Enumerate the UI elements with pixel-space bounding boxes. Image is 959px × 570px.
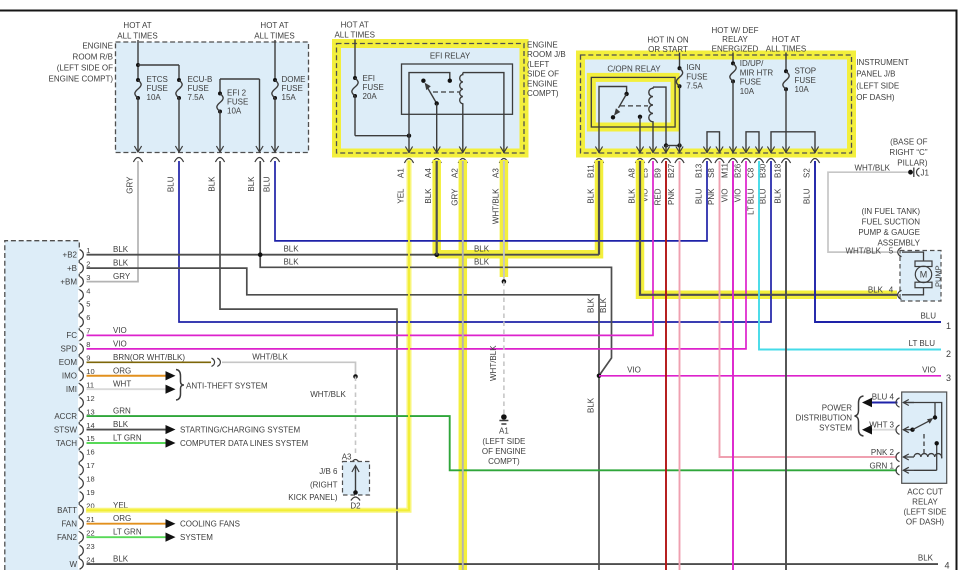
svg-text:ROOM J/B: ROOM J/B (527, 50, 566, 59)
wire: STOP fuse feed (785, 53, 787, 72)
svg-text:A1: A1 (499, 427, 509, 436)
wire: WHT 3 to power distribution (869, 429, 898, 431)
wire: dashed WHT/BLK to ground A1 (503, 282, 505, 415)
svg-text:+B: +B (67, 264, 77, 273)
svg-text:HOT AT: HOT AT (260, 21, 288, 30)
svg-text:PNK 2: PNK 2 (871, 448, 895, 457)
svg-text:(LEFT SIDE: (LEFT SIDE (856, 81, 899, 90)
highlight: A1 YEL battery lead (86, 160, 409, 510)
svg-text:PNK: PNK (707, 188, 716, 205)
wire: ECU pin13 ACCR GRN to ACC cut relay pin1 (87, 416, 898, 470)
svg-text:ALL TIMES: ALL TIMES (254, 32, 294, 41)
wire: A2 GRY lead down (highlight core) (462, 161, 464, 570)
svg-text:FUSE: FUSE (795, 76, 816, 85)
svg-text:HOT W/ DEF: HOT W/ DEF (712, 26, 759, 35)
highlight: A8 to fuel pump feed (640, 160, 897, 295)
fuse ECU-B FUSE 7.5A (177, 78, 181, 82)
ground A1 (left side of engine compt) (501, 414, 507, 420)
svg-text:13: 13 (86, 407, 94, 416)
wire: EFI fuse feed (354, 40, 356, 79)
svg-text:A4: A4 (424, 168, 433, 178)
svg-text:ALL TIMES: ALL TIMES (334, 31, 374, 40)
svg-text:10A: 10A (147, 93, 162, 102)
R/B box outlet arrows and connectors (134, 146, 141, 152)
svg-text:FUSE: FUSE (686, 72, 707, 81)
frame right border (956, 10, 958, 570)
fuse STOP FUSE 10A (784, 69, 788, 73)
svg-text:LT GRN: LT GRN (113, 434, 142, 443)
wire: BLU from DOME fuse to B13 (275, 161, 707, 241)
wire: A4 BLK drop (highlight core) (436, 161, 438, 255)
svg-text:WHT/BLK: WHT/BLK (845, 247, 881, 256)
svg-text:PANEL J/B: PANEL J/B (856, 70, 895, 79)
svg-text:ASSEMBLY: ASSEMBLY (877, 239, 920, 248)
wire: BLK from R/B to +B2 node then across (under highlight core) (260, 161, 611, 376)
svg-text:FUEL SUCTION: FUEL SUCTION (862, 218, 921, 227)
svg-text:WHT/BLK: WHT/BLK (491, 188, 500, 224)
svg-text:2: 2 (946, 349, 951, 359)
svg-text:EFI RELAY: EFI RELAY (430, 52, 471, 61)
relay box: ENGINE ROOM R/B enclosure (116, 42, 309, 153)
svg-text:B9: B9 (654, 168, 663, 178)
svg-text:FAN2: FAN2 (57, 533, 78, 542)
svg-text:21: 21 (86, 515, 94, 524)
connector J1 (base of right C pillar) (908, 170, 913, 175)
svg-text:15: 15 (86, 434, 94, 443)
svg-text:5: 5 (86, 300, 90, 309)
wire: ECU pin7 FC VIO to E5 (87, 161, 654, 335)
svg-text:ANTI-THEFT SYSTEM: ANTI-THEFT SYSTEM (186, 382, 268, 391)
svg-text:8: 8 (86, 340, 90, 349)
svg-text:IGN: IGN (686, 63, 700, 72)
wire: A1 contact feed bracket (409, 73, 450, 153)
svg-text:HOT AT: HOT AT (123, 21, 151, 30)
svg-text:EFI 2: EFI 2 (227, 89, 247, 98)
svg-text:BLK: BLK (113, 245, 129, 254)
wire: ECU pin14 STSW BLK (87, 429, 167, 431)
svg-text:OR START: OR START (648, 45, 688, 54)
svg-text:BLK: BLK (474, 258, 490, 267)
svg-text:SYSTEM: SYSTEM (180, 533, 213, 542)
svg-text:INSTRUMENT: INSTRUMENT (856, 58, 909, 67)
svg-text:23: 23 (86, 542, 94, 551)
svg-text:IMI: IMI (66, 385, 77, 394)
svg-text:B27: B27 (667, 163, 676, 178)
svg-text:OF ENGINE: OF ENGINE (482, 447, 526, 456)
svg-text:A1: A1 (397, 168, 406, 178)
svg-text:6: 6 (86, 313, 90, 322)
svg-text:9: 9 (86, 354, 90, 363)
svg-text:ETCS: ETCS (147, 75, 168, 84)
svg-text:FUSE: FUSE (227, 98, 248, 107)
node: EFI2-BLK joins +B2 (258, 252, 263, 257)
wire: A4 from switch arm (435, 101, 439, 105)
svg-text:LT BLU: LT BLU (909, 339, 936, 348)
enclosure: fuel pump assembly (900, 251, 941, 302)
highlighted enclosure: INSTRUMENT PANEL J/B (581, 55, 852, 153)
svg-text:STOP: STOP (795, 67, 817, 76)
svg-text:7: 7 (86, 327, 90, 336)
wire: S2 BLU off-page 1 (815, 161, 941, 322)
svg-text:VIO: VIO (734, 189, 743, 203)
enclosure J/B 6 (right kick panel) (351, 460, 360, 465)
wire: GRY from ETCS fuse to ECU +BM pin 3 (87, 161, 139, 282)
node: EFI fuse to A1 junction (407, 134, 411, 138)
svg-text:LT BLU: LT BLU (747, 188, 756, 215)
svg-text:RIGHT “C”: RIGHT “C” (889, 148, 927, 157)
svg-text:FC: FC (66, 331, 77, 340)
node: VIO tap splice on BLK riser (597, 374, 602, 379)
relay actuation dashed link (C/OPN) (620, 105, 648, 107)
node: WHT/BLK splice (353, 374, 358, 379)
svg-text:BLK: BLK (774, 188, 783, 204)
svg-text:ECU-B: ECU-B (188, 75, 213, 84)
node: branch to ECU-B fuse (136, 63, 140, 67)
svg-text:S2: S2 (803, 168, 812, 178)
svg-text:BLK: BLK (628, 188, 637, 204)
wire: WHT/BLK from J1 to fuel pump pin5 (828, 172, 908, 252)
svg-text:ID/UP/: ID/UP/ (740, 59, 764, 68)
svg-text:ACCR: ACCR (54, 412, 77, 421)
connector break on EOM lead (212, 358, 215, 366)
svg-text:ALL TIMES: ALL TIMES (117, 32, 157, 41)
svg-text:PILLAR): PILLAR) (897, 159, 928, 168)
svg-text:RELAY: RELAY (722, 35, 748, 44)
wire: A8 contact stub (638, 115, 642, 119)
svg-text:FUSE: FUSE (363, 83, 384, 92)
highlighted enclosure: ENGINE ROOM J/B with EFI RELAY (337, 44, 525, 154)
svg-text:B18: B18 (774, 163, 783, 178)
relay actuation dashed link (433, 91, 459, 93)
wire: S8 PNK to ACC cut relay pin2 (720, 161, 898, 457)
svg-text:24: 24 (86, 555, 94, 564)
wire: fuse output to A1 node (355, 135, 409, 137)
svg-text:EOM: EOM (59, 358, 78, 367)
fuse DOME FUSE 15A (273, 78, 277, 82)
svg-text:POWER: POWER (822, 404, 852, 413)
svg-text:(RIGHT: (RIGHT (310, 481, 338, 490)
EFI relay outlet arrows and connectors (405, 147, 412, 153)
svg-text:FUSE: FUSE (740, 78, 761, 87)
relay C/OPN RELAY highlighted box (591, 77, 675, 127)
svg-text:BATT: BATT (57, 506, 77, 515)
svg-text:10A: 10A (795, 85, 810, 94)
svg-text:STSW: STSW (54, 425, 78, 434)
svg-text:HOT IN ON: HOT IN ON (647, 36, 688, 45)
fuse ETCS FUSE 10A (136, 78, 140, 82)
svg-text:D2: D2 (350, 502, 361, 511)
svg-text:4: 4 (86, 286, 90, 295)
svg-text:BRN(OR WHT/BLK): BRN(OR WHT/BLK) (113, 353, 185, 362)
svg-text:B13: B13 (695, 163, 704, 178)
svg-text:ENGINE: ENGINE (527, 41, 558, 50)
svg-text:C8: C8 (747, 167, 756, 178)
svg-text:+BM: +BM (60, 277, 77, 286)
svg-text:COOLING FANS: COOLING FANS (180, 520, 240, 529)
svg-text:BLK: BLK (113, 420, 129, 429)
svg-text:MIR HTR: MIR HTR (740, 68, 774, 77)
enclosure: ACC CUT RELAY (902, 392, 947, 483)
svg-text:BLU: BLU (803, 188, 812, 204)
svg-text:ORG: ORG (113, 514, 131, 523)
fuse EFI 2 FUSE 10A (218, 92, 222, 96)
wire: B9 RED lead down (665, 161, 667, 570)
ECU pin connector arcs and numbers (78, 250, 81, 260)
connector pin 4 (898, 290, 902, 299)
node: B9/B27 tie bar (664, 143, 668, 147)
svg-text:BLK: BLK (474, 245, 490, 254)
wire: M11 VIO lead down (732, 161, 734, 570)
svg-text:20A: 20A (363, 92, 378, 101)
svg-text:BLK: BLK (283, 258, 299, 267)
svg-text:17: 17 (86, 461, 94, 470)
svg-text:VIO: VIO (113, 326, 127, 335)
svg-text:10A: 10A (227, 107, 242, 116)
wire: A3 WHT/BLK lead to splice (503, 161, 505, 282)
svg-text:(LEFT SIDE: (LEFT SIDE (482, 437, 525, 446)
relay EFI RELAY internal box (402, 64, 513, 114)
frame top border (0, 10, 958, 12)
wire: A3 bracket from coil top (463, 73, 504, 153)
wire: B18 BLK lead down (785, 161, 787, 570)
wire: ECU pin9 EOM BRN segment (87, 361, 212, 363)
svg-text:WHT: WHT (113, 380, 131, 389)
highlight: A2 lead (459, 160, 468, 570)
svg-text:COMPT): COMPT) (488, 457, 520, 466)
svg-text:14: 14 (86, 421, 94, 430)
wire: BLU from ECU-B fuse to B30 (joins y=322 run) (179, 161, 771, 322)
svg-text:BLU 4: BLU 4 (872, 393, 895, 402)
wire: B11 contact bracket (599, 87, 627, 154)
ACC relay connectors (896, 398, 900, 407)
svg-text:RELAY: RELAY (912, 498, 938, 507)
svg-text:YEL: YEL (397, 188, 406, 204)
wire: ECU pin15 TACH LT GRN (87, 442, 167, 444)
wire: ECU pin11 IMI WHT (87, 388, 167, 390)
wire: ECU pin10 IMO ORG (87, 375, 167, 377)
wire: ECU pin21 FAN ORG (87, 523, 167, 525)
svg-text:HOT AT: HOT AT (772, 35, 800, 44)
wire: DOME fuse feed (274, 40, 276, 80)
wire: BLK from EFI2 fuse down and right to lower BLK riser (220, 161, 397, 570)
svg-text:BLU: BLU (167, 176, 176, 192)
svg-text:A3: A3 (342, 453, 352, 462)
svg-text:BLK: BLK (208, 176, 217, 192)
svg-text:ALL TIMES: ALL TIMES (766, 45, 806, 54)
svg-text:BLK: BLK (247, 176, 256, 192)
svg-text:(LEFT: (LEFT (527, 60, 549, 69)
svg-text:FUSE: FUSE (282, 84, 303, 93)
wire: ECU pin2 +B BLK staircase to lower riser (87, 268, 600, 570)
svg-text:VIO: VIO (627, 366, 641, 375)
svg-text:7.5A: 7.5A (188, 93, 205, 102)
svg-text:BLK: BLK (113, 259, 129, 268)
connector pin 5 (898, 248, 902, 257)
svg-text:B26: B26 (734, 163, 743, 178)
enclosure: engine control module connector (left) (5, 241, 80, 570)
svg-text:18: 18 (86, 475, 94, 484)
wire: ECU pin20 BATT YEL from EFI A1 (87, 161, 410, 510)
svg-text:M: M (920, 270, 928, 280)
svg-text:BLK: BLK (587, 297, 596, 313)
svg-text:GRY: GRY (113, 272, 131, 281)
svg-text:J/B 6: J/B 6 (319, 467, 338, 476)
svg-text:11: 11 (86, 380, 94, 389)
pump motor M (902, 252, 924, 261)
ACC relay internals (905, 403, 942, 459)
svg-text:2: 2 (86, 259, 90, 268)
svg-text:A2: A2 (450, 168, 459, 178)
wire: BLU 4 to power distribution (869, 402, 898, 404)
svg-text:5: 5 (889, 247, 894, 256)
svg-text:PUMP & GAUGE: PUMP & GAUGE (858, 228, 920, 237)
highlight: EFI main relay output circuit A4 to B11 (437, 160, 599, 254)
svg-text:(LEFT SIDE OF: (LEFT SIDE OF (57, 64, 113, 73)
svg-text:A3: A3 (491, 168, 500, 178)
svg-text:DISTRIBUTION: DISTRIBUTION (796, 414, 853, 423)
svg-text:COMPUTER DATA LINES SYSTEM: COMPUTER DATA LINES SYSTEM (180, 439, 309, 448)
svg-text:FAN: FAN (61, 520, 77, 529)
svg-text:W: W (69, 560, 77, 569)
svg-text:IMO: IMO (62, 372, 77, 381)
svg-text:WHT/BLK: WHT/BLK (310, 390, 346, 399)
wire: ECU pin8 SPD VIO to B26 (87, 161, 747, 349)
svg-text:ENERGIZED: ENERGIZED (712, 45, 759, 54)
svg-text:BLU: BLU (695, 188, 704, 204)
svg-text:ACC CUT: ACC CUT (907, 488, 943, 497)
svg-text:7.5A: 7.5A (686, 82, 703, 91)
svg-text:FUSE: FUSE (188, 84, 209, 93)
svg-text:12: 12 (86, 394, 94, 403)
svg-text:ROOM R/B: ROOM R/B (73, 53, 113, 62)
wire: A8 BLK to fuel pump (highlight core) (640, 161, 898, 295)
svg-text:ORG: ORG (113, 366, 131, 375)
brace and label ANTI-THEFT SYSTEM (176, 370, 184, 401)
svg-text:GRY: GRY (126, 176, 135, 194)
relay switch arm with arrow (428, 88, 437, 104)
svg-text:BLU: BLU (263, 176, 272, 192)
svg-text:BLU: BLU (920, 312, 936, 321)
wire: ID/UP fuse feed (732, 53, 734, 64)
svg-text:GRN: GRN (113, 407, 131, 416)
svg-text:VIO: VIO (721, 189, 730, 203)
svg-text:SIDE OF: SIDE OF (527, 70, 559, 79)
svg-text:BLK: BLK (868, 286, 884, 295)
svg-text:4: 4 (945, 561, 950, 570)
svg-text:C/OPN RELAY: C/OPN RELAY (607, 65, 661, 74)
wire: ECU pin22 FAN2 LT GRN (87, 536, 167, 538)
node: A4 joins +B2 run (434, 252, 439, 257)
svg-text:(IN FUEL TANK): (IN FUEL TANK) (861, 207, 920, 216)
svg-text:BLK: BLK (587, 397, 596, 413)
svg-text:FUSE: FUSE (147, 84, 168, 93)
svg-text:16: 16 (86, 448, 94, 457)
highlight: A3 ground lead (500, 160, 509, 277)
svg-text:STARTING/CHARGING SYSTEM: STARTING/CHARGING SYSTEM (180, 425, 300, 434)
svg-text:J1: J1 (921, 169, 930, 178)
svg-text:WHT 3: WHT 3 (869, 420, 894, 429)
svg-text:BLK: BLK (283, 245, 299, 254)
svg-text:15A: 15A (282, 93, 297, 102)
svg-text:1: 1 (946, 321, 951, 331)
relay coil (EFI) (460, 73, 463, 153)
wire: J/B6 internal with up arrow (355, 466, 357, 493)
svg-text:(LEFT SIDE: (LEFT SIDE (904, 508, 947, 517)
svg-text:OF DASH): OF DASH) (906, 518, 945, 527)
wire: coil feed bracket to B9 (653, 87, 666, 145)
svg-text:(BASE OF: (BASE OF (890, 138, 927, 147)
svg-text:BLK: BLK (918, 554, 934, 563)
svg-text:B11: B11 (587, 164, 596, 178)
svg-text:22: 22 (86, 528, 94, 537)
svg-text:M11: M11 (721, 162, 730, 178)
wire: ECU pin24 W BLK off-page 4 (87, 563, 939, 565)
svg-text:EFI: EFI (363, 74, 375, 83)
wire: B11 BLK riser (highlight core) (598, 161, 600, 255)
svg-text:BLK: BLK (599, 297, 608, 313)
svg-text:1: 1 (86, 246, 90, 255)
svg-text:A8: A8 (628, 168, 637, 178)
svg-text:+B2: +B2 (63, 251, 78, 260)
svg-text:BLK: BLK (424, 188, 433, 204)
svg-text:RED: RED (654, 188, 663, 205)
svg-text:4: 4 (889, 286, 894, 295)
node: WHT/BLK splice S (502, 279, 507, 284)
svg-text:ENGINE: ENGINE (527, 79, 558, 88)
svg-text:10: 10 (86, 367, 94, 376)
wire: B13-S8 tie bracket (707, 132, 720, 153)
J/B outlet arrows and connectors (595, 147, 602, 153)
svg-text:19: 19 (86, 488, 94, 497)
relay coil (C/OPN) feeding E5 (649, 87, 653, 153)
svg-text:HOT AT: HOT AT (341, 21, 369, 30)
svg-text:PNK: PNK (667, 188, 676, 205)
svg-text:ENGINE COMPT): ENGINE COMPT) (49, 75, 114, 84)
wire: B30-S2 tie bracket (771, 132, 815, 153)
svg-text:DOME: DOME (282, 75, 306, 84)
wire: C8 LT BLU off-page 2 (759, 161, 941, 350)
wire: B27 PNK lead down (679, 161, 681, 570)
relay switch arm with arrow (C/OPN) (619, 94, 627, 108)
fuse EFI FUSE 20A (353, 76, 357, 80)
svg-text:SYSTEM: SYSTEM (819, 424, 852, 433)
fuse ID/UP/MIR HTR FUSE 10A (731, 61, 735, 65)
svg-text:10A: 10A (740, 87, 755, 96)
svg-text:TACH: TACH (56, 439, 77, 448)
svg-text:VIO: VIO (922, 366, 936, 375)
wire: B26-C8 tie bracket (746, 132, 759, 153)
svg-text:WHT/BLK: WHT/BLK (489, 345, 498, 381)
svg-text:S8: S8 (707, 168, 716, 178)
svg-text:COMPT): COMPT) (527, 89, 559, 98)
svg-text:WHT/BLK: WHT/BLK (252, 353, 288, 362)
svg-text:WHT/BLK: WHT/BLK (854, 164, 890, 173)
svg-text:SPD: SPD (61, 345, 78, 354)
svg-text:PUMP: PUMP (934, 265, 943, 287)
svg-text:LT GRN: LT GRN (113, 528, 142, 537)
svg-text:GRY: GRY (450, 188, 459, 206)
wire: feed into ETCS fuse (137, 40, 139, 80)
svg-text:OF DASH): OF DASH) (856, 93, 895, 102)
fuse IGN FUSE 7.5A (678, 66, 682, 70)
wire: EFI 2 fuse feed bar (220, 78, 260, 80)
wire: EOM WHT/BLK to J/B 6 (222, 362, 356, 376)
svg-text:BLK: BLK (113, 555, 129, 564)
svg-text:3: 3 (946, 373, 951, 383)
svg-text:KICK PANEL): KICK PANEL) (288, 493, 338, 502)
wire: IGN fuse feed (679, 53, 681, 69)
wire: dashed WHT/BLK down to J/B6 A3 (355, 377, 357, 457)
